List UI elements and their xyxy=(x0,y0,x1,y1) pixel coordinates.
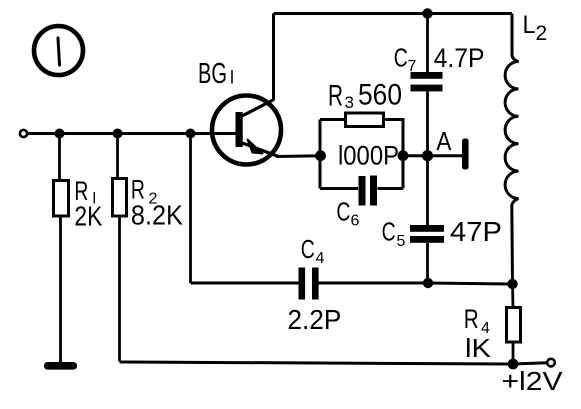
svg-text:BG: BG xyxy=(198,58,227,90)
node C4 branch junction xyxy=(186,129,196,139)
wire box to node A xyxy=(403,154,428,157)
wire top rail xyxy=(274,12,513,15)
svg-text:4.7P: 4.7P xyxy=(434,43,485,73)
wire mid bottom to L2 xyxy=(428,283,513,284)
capacitor C5 xyxy=(410,225,444,243)
wire collector lead xyxy=(272,14,275,101)
wire R2 top lead xyxy=(116,134,119,179)
wire R1 bottom lead xyxy=(59,216,62,362)
svg-text:8.2K: 8.2K xyxy=(131,200,183,231)
wire node A stub xyxy=(428,154,463,157)
node R2 top junction xyxy=(113,129,123,139)
label C5 xyxy=(382,217,406,251)
svg-text:lK: lK xyxy=(465,333,492,363)
svg-text:R: R xyxy=(464,304,479,334)
node feedback box right junction xyxy=(398,150,409,161)
capacitor C4 xyxy=(299,268,319,300)
wire C4 branch vertical xyxy=(189,134,192,284)
svg-text:A: A xyxy=(436,126,452,156)
node C5 bottom junction xyxy=(423,278,433,288)
resistor R2 xyxy=(113,179,127,217)
svg-text:6: 6 xyxy=(351,213,360,230)
figure number 1 xyxy=(34,26,83,75)
wire R1 top lead xyxy=(58,134,61,181)
svg-text:C: C xyxy=(394,43,408,73)
resistor R1 xyxy=(54,181,69,217)
transistor BG1 xyxy=(212,96,281,165)
label R4 xyxy=(464,304,490,337)
svg-text:L: L xyxy=(523,11,536,39)
svg-text:R: R xyxy=(328,80,343,113)
svg-text:47P: 47P xyxy=(450,216,502,247)
svg-text:C: C xyxy=(336,197,350,227)
node R1 top junction xyxy=(55,129,65,139)
input terminal xyxy=(20,130,27,137)
supply terminal xyxy=(547,359,555,367)
resistor R4 xyxy=(507,308,521,343)
svg-text:560: 560 xyxy=(358,78,402,111)
node feedback box left junction xyxy=(315,150,326,161)
svg-text:l000P: l000P xyxy=(338,141,399,171)
label L2 xyxy=(523,11,548,45)
svg-text:2.2P: 2.2P xyxy=(287,304,341,335)
wire input bus xyxy=(27,132,236,135)
label R3 xyxy=(328,80,354,113)
antenna stub bar xyxy=(462,139,469,170)
wire L2 bottom to R4 xyxy=(511,284,514,308)
label C6 xyxy=(336,197,359,230)
capacitor C6 xyxy=(359,176,378,206)
inductor L2 xyxy=(505,14,518,285)
ground xyxy=(44,362,77,370)
feedback network frame xyxy=(320,120,403,189)
wire C4 left lead xyxy=(191,282,300,285)
wire emitter lead xyxy=(276,154,321,158)
capacitor C7 xyxy=(411,72,443,91)
svg-text:C: C xyxy=(301,234,315,264)
resistor R3 xyxy=(346,113,384,127)
svg-text:+l2V: +l2V xyxy=(502,366,564,396)
label R1 xyxy=(74,176,96,208)
wire C4 right lead xyxy=(319,282,428,285)
svg-text:C: C xyxy=(382,217,396,247)
svg-text:4: 4 xyxy=(316,250,325,267)
wire R4 bottom lead xyxy=(512,342,515,364)
node C7 top junction xyxy=(422,8,432,18)
label C7 xyxy=(394,43,417,76)
label C4 xyxy=(301,234,325,267)
svg-text:l: l xyxy=(230,68,234,88)
label R2 xyxy=(131,175,158,208)
node supply junction xyxy=(508,359,519,370)
wire bottom supply rail xyxy=(120,362,514,364)
svg-text:3: 3 xyxy=(345,93,354,112)
svg-text:7: 7 xyxy=(408,58,417,75)
svg-text:2: 2 xyxy=(536,22,548,45)
label BG1 xyxy=(198,58,234,90)
svg-text:5: 5 xyxy=(397,233,406,250)
wire R2 bottom lead xyxy=(118,216,121,362)
wire C7 branch vertical xyxy=(426,14,429,284)
node L2 bottom junction xyxy=(507,279,517,289)
svg-text:2K: 2K xyxy=(74,201,102,232)
wire to supply terminal xyxy=(513,363,548,364)
node A xyxy=(422,150,433,161)
